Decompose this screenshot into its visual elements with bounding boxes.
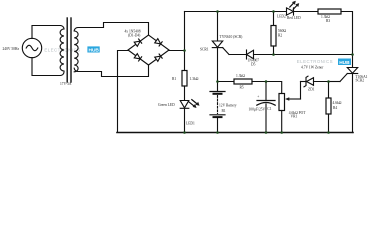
svg-text:B1: B1: [222, 109, 226, 113]
svg-text:SCR2: SCR2: [356, 79, 365, 83]
resistor R2 560 ohm: [271, 12, 286, 55]
svg-text:ZD1: ZD1: [308, 88, 315, 92]
diode D1: [134, 39, 141, 46]
battery B1 12V: [210, 92, 237, 118]
svg-text:LED2: LED2: [277, 14, 286, 18]
svg-text:Green LED: Green LED: [158, 103, 175, 107]
wire source bottom to primary: [32, 58, 60, 76]
SCR1 TYN610: [200, 12, 243, 55]
svg-text:1.3kΩ: 1.3kΩ: [190, 77, 199, 81]
svg-text:1.3kΩ: 1.3kΩ: [236, 74, 245, 78]
wire SCR2 cathode to bottom rail: [352, 74, 354, 133]
transformer T1: [60, 18, 78, 86]
diode D4: [155, 54, 162, 61]
svg-text:VR1: VR1: [291, 114, 298, 118]
svg-text:HUB: HUB: [89, 47, 100, 53]
svg-text:R3: R3: [326, 19, 330, 23]
wire secondary top to bridge top: [78, 23, 149, 36]
junction node dots: [183, 10, 354, 134]
LED LED2 red: [277, 1, 301, 20]
svg-text:(D1-D4): (D1-D4): [128, 34, 141, 38]
svg-text:560Ω: 560Ω: [278, 29, 286, 33]
bottom ground rail: [117, 132, 353, 134]
resistor R1 1.3k: [172, 71, 199, 87]
wire LED2 to R3: [294, 11, 319, 13]
svg-text:240V 50Hz: 240V 50Hz: [3, 47, 20, 51]
svg-text:R1: R1: [172, 77, 176, 81]
potentiometer VR1 4.6k: [279, 82, 306, 119]
svg-text:TYN610 (SCR): TYN610 (SCR): [220, 35, 244, 39]
wire bridge plus to node: [169, 50, 185, 52]
wire bridge minus to ground rail: [118, 51, 129, 133]
svg-text:17V-3A: 17V-3A: [60, 82, 72, 86]
svg-text:R5: R5: [240, 86, 244, 90]
watermark ELECTRONICS HUB right: [297, 59, 351, 66]
wire gate node to SCR2 anode rail: [274, 54, 353, 56]
svg-text:4.7V 1W Zener: 4.7V 1W Zener: [301, 66, 324, 70]
svg-text:Red LED: Red LED: [287, 16, 301, 20]
wire source top to primary: [32, 26, 60, 39]
LED LED1 green: [158, 100, 200, 126]
svg-text:ELECTRONICS: ELECTRONICS: [297, 59, 333, 64]
diode D3: [134, 54, 141, 61]
svg-text:LED1: LED1: [186, 122, 195, 126]
zener ZD1 4.7V 1W: [301, 66, 329, 92]
resistor R5 1.3k: [234, 74, 252, 90]
wire battery to bottom rail: [217, 117, 219, 132]
svg-text:R2: R2: [278, 34, 282, 38]
svg-text:HUB: HUB: [339, 60, 350, 66]
svg-text:4.6kΩ: 4.6kΩ: [333, 101, 342, 105]
wire R1 to LED1: [184, 86, 186, 101]
diode D2: [155, 39, 162, 46]
wire pot to bottom rail: [281, 111, 283, 133]
diode D5 1N4007: [229, 50, 274, 67]
wire SCR1 cathode down to battery node: [217, 48, 219, 92]
bridge rectifier 4x 1N5408 D1-D4: [125, 30, 170, 66]
resistor R4 1k: [326, 82, 342, 133]
SCR2 T106A1: [340, 68, 368, 83]
capacitor C1 100uF/25V: [249, 82, 276, 133]
wire zener node to SCR2 gate: [329, 81, 341, 83]
svg-text:C1: C1: [267, 107, 271, 111]
svg-text:+: +: [257, 95, 259, 99]
svg-text:12V Battery: 12V Battery: [219, 104, 237, 108]
svg-text:SCR1: SCR1: [200, 47, 209, 51]
wire node up to top rail: [184, 12, 186, 51]
wire LED1 to bottom rail: [184, 108, 186, 132]
svg-text:R4: R4: [333, 106, 337, 110]
wire R5 to pot: [252, 82, 282, 94]
wire battery node right: [218, 81, 235, 83]
wire top rail left section: [185, 11, 287, 13]
svg-text:D5: D5: [251, 63, 256, 67]
resistor R3 1.3k: [318, 9, 341, 23]
wire node down to R1: [184, 51, 186, 71]
svg-text:100µF/25V: 100µF/25V: [249, 107, 266, 111]
wire secondary bottom to bridge bottom: [78, 65, 149, 77]
wire R3 to right rail corner: [341, 12, 353, 68]
AC source V1 240V 50Hz: [3, 38, 42, 57]
watermark ELECTRONICS HUB left: [44, 46, 99, 53]
